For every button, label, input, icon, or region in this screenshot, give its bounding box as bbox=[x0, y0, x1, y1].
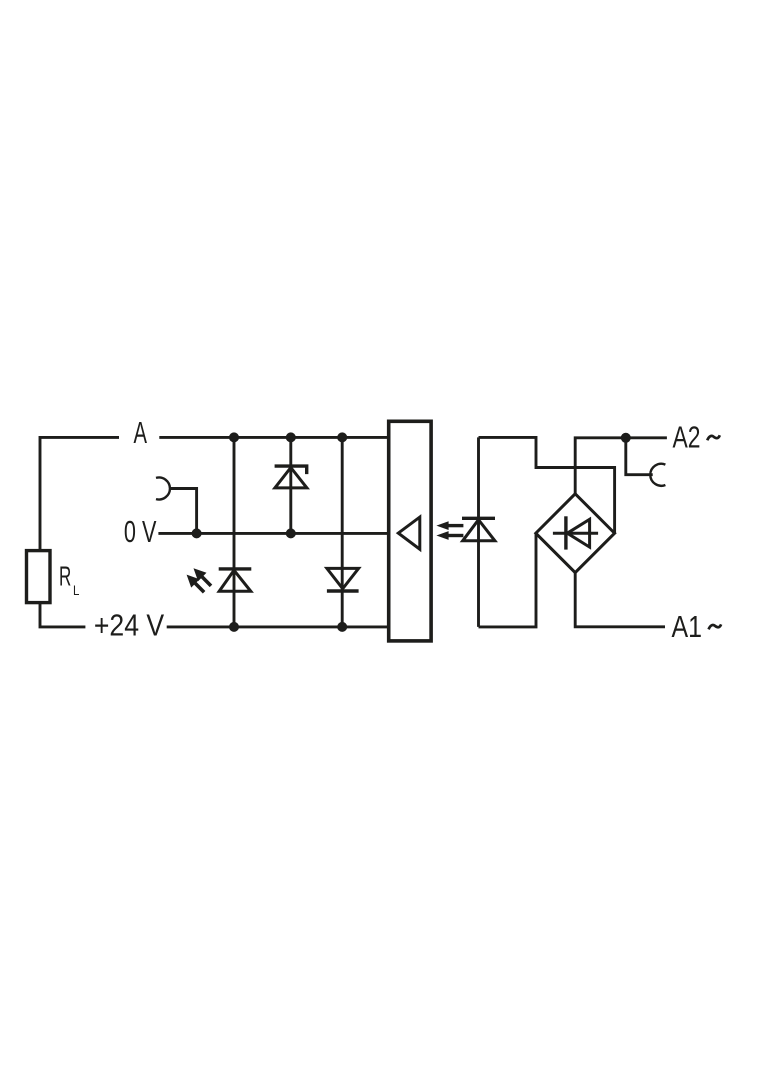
LED D1 emission arrows bbox=[187, 568, 211, 592]
clamp contact at A2 bbox=[650, 464, 665, 486]
wire resistor to +24V rail left segment bbox=[40, 603, 85, 627]
wire step from opto branch to diamond right vertex bbox=[479, 437, 615, 533]
triac output diamond U2 bbox=[536, 494, 615, 573]
svg-text:L: L bbox=[73, 582, 80, 598]
svg-text:A1: A1 bbox=[672, 610, 703, 644]
wire opto LED branch vertical bbox=[477, 437, 480, 627]
wire +24V rail right segment to block U1 bbox=[167, 625, 389, 628]
svg-text:R: R bbox=[59, 560, 71, 591]
node +24V rail / branch 3 bbox=[337, 622, 347, 632]
LED D1 status (cathode bar and triangle) bbox=[219, 569, 252, 591]
wire vertical branch 3 (diode branch) bbox=[341, 437, 344, 627]
resistor RL bbox=[27, 551, 51, 603]
block U1 input driver bbox=[389, 421, 431, 641]
svg-text:+24 V: +24 V bbox=[94, 609, 165, 643]
node A rail / branch 1 bbox=[229, 432, 239, 442]
zener diode D2 (bar with hook and triangle) bbox=[275, 466, 307, 488]
node A rail / branch 2 bbox=[286, 432, 296, 442]
wire A rail right segment to block U1 bbox=[159, 436, 388, 439]
wire A rail left segment bbox=[40, 437, 119, 550]
label A2 ~ bbox=[673, 421, 720, 455]
wire clamp to 0V junction bbox=[169, 489, 197, 534]
node 0V rail / branch 2 bbox=[286, 528, 296, 538]
optocoupler light arrow lower bbox=[436, 531, 463, 540]
wire vertical branch 1 (status LED branch) bbox=[233, 437, 236, 627]
node +24V rail / branch 1 bbox=[229, 622, 239, 632]
clamp contact at 0V bbox=[156, 478, 170, 500]
svg-text:A: A bbox=[134, 416, 148, 450]
label RL bbox=[59, 560, 80, 598]
optocoupler light arrow upper bbox=[436, 521, 463, 530]
node clamp/0V junction bbox=[192, 528, 202, 538]
receiver triangle in U1 bbox=[398, 517, 420, 549]
diode inside diamond U2 bbox=[553, 516, 598, 549]
wire A1 riser and A1 rail bbox=[575, 573, 665, 627]
optocoupler LED D4 (cathode bar and triangle) bbox=[462, 518, 495, 541]
node A rail / branch 3 bbox=[337, 432, 347, 442]
wire A2 junction to clamp bbox=[626, 438, 653, 475]
diode D3 (triangle pointing down and bar) bbox=[327, 568, 359, 591]
label A1 ~ bbox=[672, 610, 722, 644]
wire 0V rail to block U1 bbox=[158, 532, 388, 535]
wire bottom U from opto branch to diamond left vertex bbox=[479, 533, 537, 627]
svg-text:0 V: 0 V bbox=[124, 515, 157, 549]
wire A2 riser and A2 rail bbox=[575, 438, 667, 494]
svg-text:A2: A2 bbox=[673, 421, 701, 455]
node A2 junction bbox=[621, 433, 631, 443]
wire vertical branch 2 (zener branch) bbox=[289, 437, 292, 533]
